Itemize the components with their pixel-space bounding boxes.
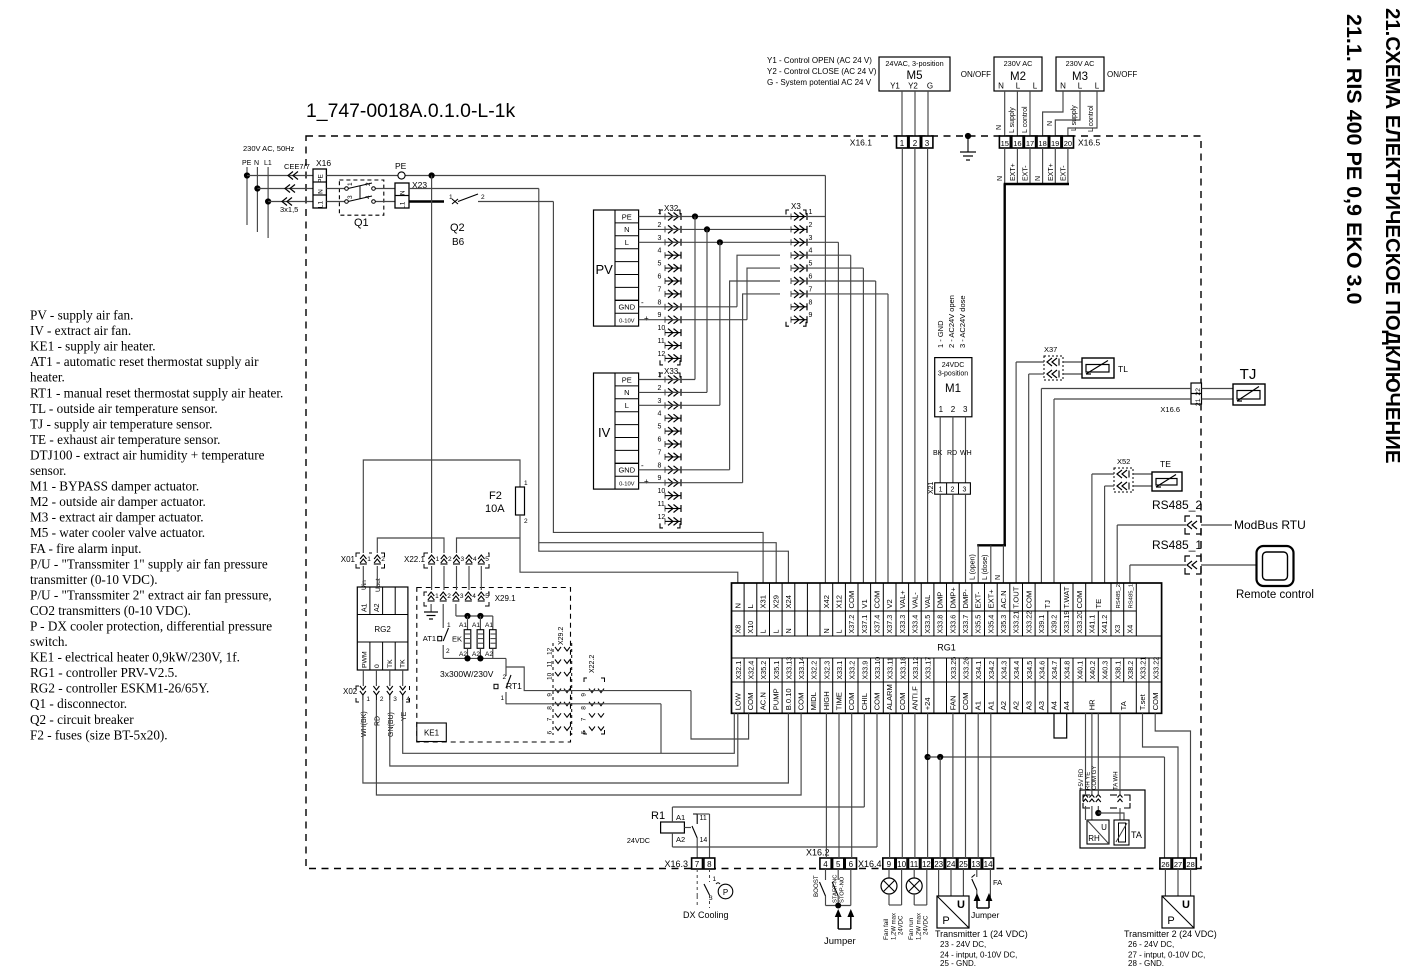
svg-text:RS485_1: RS485_1 xyxy=(1129,584,1135,609)
wire input N vertical xyxy=(254,167,260,232)
connector X29.2 xyxy=(547,627,572,735)
svg-text:X33.26: X33.26 xyxy=(962,657,971,680)
svg-text:A1: A1 xyxy=(676,813,685,822)
svg-text:X24: X24 xyxy=(784,595,793,609)
svg-text:9: 9 xyxy=(547,693,554,697)
svg-text:X8: X8 xyxy=(733,625,742,634)
svg-text:V2: V2 xyxy=(885,599,894,608)
wire L1 to X31 xyxy=(553,202,763,584)
svg-text:X41.1: X41.1 xyxy=(1088,615,1097,634)
svg-text:2: 2 xyxy=(658,222,662,229)
RG1 lower terminal texts xyxy=(733,657,1160,711)
svg-text:X35.5: X35.5 xyxy=(974,615,983,634)
svg-text:L (open): L (open) xyxy=(970,554,977,580)
svg-text:A2: A2 xyxy=(1012,701,1021,710)
svg-text:X22.1: X22.1 xyxy=(404,555,425,564)
svg-text:X34.4: X34.4 xyxy=(1012,661,1021,680)
svg-text:R1: R1 xyxy=(651,810,665,822)
svg-text:X33.8: X33.8 xyxy=(936,615,945,634)
svg-text:9: 9 xyxy=(581,693,588,697)
fuse F2 xyxy=(516,480,529,525)
svg-text:0-10V: 0-10V xyxy=(619,319,635,325)
svg-text:G: G xyxy=(927,82,933,91)
svg-text:16: 16 xyxy=(1013,139,1021,148)
svg-text:X33.17: X33.17 xyxy=(924,657,933,680)
svg-text:N: N xyxy=(318,189,325,194)
svg-text:X33.13: X33.13 xyxy=(784,657,793,680)
svg-text:A1: A1 xyxy=(459,622,467,629)
svg-text:X33.12: X33.12 xyxy=(911,657,920,680)
svg-text:23 - 24V DC,: 23 - 24V DC, xyxy=(940,940,986,949)
wire X16.1-3 to VAL xyxy=(927,148,929,583)
svg-text:27: 27 xyxy=(1174,860,1182,869)
svg-text:transmitter (0-10 VDC).: transmitter (0-10 VDC). xyxy=(30,572,158,587)
svg-text:X52: X52 xyxy=(1117,457,1130,466)
heater KE1 dashed enclosure xyxy=(417,588,571,743)
svg-text:A3: A3 xyxy=(1024,701,1033,710)
svg-text:COM: COM xyxy=(847,591,856,609)
svg-text:FA - fire alarm input.: FA - fire alarm input. xyxy=(30,541,141,556)
svg-text:X33.2: X33.2 xyxy=(848,661,857,680)
wire X16.1-1 to VAL+ xyxy=(901,148,903,583)
svg-text:N: N xyxy=(996,125,1003,130)
svg-text:Q1 - disconnector.: Q1 - disconnector. xyxy=(30,696,127,711)
svg-text:U: U xyxy=(1101,823,1107,832)
svg-text:X33.1: X33.1 xyxy=(835,661,844,680)
svg-text:X33.21: X33.21 xyxy=(1139,657,1148,680)
label 230V AC, 50Hz xyxy=(243,144,295,153)
wire F2 to X8 xyxy=(520,515,738,583)
wire X16.1-2 to VAL- xyxy=(914,148,916,583)
start stop switch xyxy=(826,869,851,909)
svg-text:LOW: LOW xyxy=(733,692,742,710)
lamp Fan fail xyxy=(881,869,902,905)
svg-text:14: 14 xyxy=(700,837,708,844)
svg-text:RG1: RG1 xyxy=(937,643,956,653)
svg-text:14: 14 xyxy=(984,860,993,869)
wire M2 L control xyxy=(1022,91,1030,136)
wire input PE vertical xyxy=(244,167,250,225)
unit enclosure dashed border xyxy=(306,136,1201,869)
wire M5 Y1 xyxy=(901,91,903,136)
wire bus branch to X16.4-23 xyxy=(939,757,941,858)
svg-text:4: 4 xyxy=(365,195,372,199)
svg-text:1: 1 xyxy=(435,593,439,600)
label KE1 box xyxy=(417,723,447,742)
connector X22.2 xyxy=(581,655,605,735)
svg-text:X32.1: X32.1 xyxy=(734,661,743,680)
svg-text:RT1 - manual reset thermostat: RT1 - manual reset thermostat supply air… xyxy=(30,385,283,400)
svg-text:X37.1: X37.1 xyxy=(860,615,869,634)
connector RS485_2 xyxy=(1185,516,1201,534)
svg-text:0: 0 xyxy=(374,664,381,668)
svg-text:X35.2: X35.2 xyxy=(759,661,768,680)
svg-text:RS485_2: RS485_2 xyxy=(1116,584,1122,609)
svg-text:3: 3 xyxy=(393,696,397,703)
heater element EK2 xyxy=(472,616,484,658)
wire COM to R1 A2 xyxy=(672,713,877,847)
svg-text:10: 10 xyxy=(658,488,666,495)
svg-text:24VDC: 24VDC xyxy=(924,915,930,935)
svg-text:COM: COM xyxy=(873,693,882,711)
sensor TJ xyxy=(1202,366,1266,405)
legend text xyxy=(30,308,283,743)
RG1 upper terminal texts xyxy=(733,584,1134,634)
svg-text:M2 - outside air damper actuat: M2 - outside air damper actuator. xyxy=(30,494,206,509)
svg-text:VAL: VAL xyxy=(923,595,932,609)
thermostat AT1 xyxy=(423,604,451,658)
wire M3 L supply xyxy=(1055,91,1080,136)
svg-text:2: 2 xyxy=(951,405,956,414)
heater bottom bus xyxy=(443,655,506,661)
label RG1 xyxy=(937,643,956,653)
svg-text:GND: GND xyxy=(618,466,635,475)
wire to EXT- X35.5 xyxy=(970,545,979,583)
svg-text:Uin: Uin xyxy=(361,580,368,590)
svg-text:X37: X37 xyxy=(1044,345,1057,354)
svg-text:3: 3 xyxy=(460,593,464,600)
svg-text:Q2 - circuit breaker: Q2 - circuit breaker xyxy=(30,712,134,727)
svg-text:X35.1: X35.1 xyxy=(772,661,781,680)
bold neutral bus below X16.5 xyxy=(1004,183,1069,185)
svg-text:VAL-: VAL- xyxy=(910,592,919,609)
terminal X16.4 xyxy=(858,858,994,869)
svg-text:2: 2 xyxy=(448,556,452,563)
svg-text:PV: PV xyxy=(596,262,614,277)
wire PV 0-10V to X3.5 xyxy=(639,268,806,320)
svg-text:1: 1 xyxy=(436,556,440,563)
svg-text:AT1 - automatic reset thermost: AT1 - automatic reset thermostat supply … xyxy=(30,354,259,369)
svg-text:3: 3 xyxy=(658,235,662,242)
svg-text:10: 10 xyxy=(547,672,554,680)
svg-text:21.СХЕМА ЕЛЕКТРИЧЕСКОЕ ПОДКЛЮЧ: 21.СХЕМА ЕЛЕКТРИЧЕСКОЕ ПОДКЛЮЧЕНИЕ xyxy=(1381,8,1403,463)
wire PV GND to X3.4 xyxy=(639,255,806,307)
svg-text:Jumper: Jumper xyxy=(824,936,856,947)
label Jumper FA xyxy=(971,910,1000,920)
svg-text:N: N xyxy=(784,628,793,633)
svg-text:L1: L1 xyxy=(318,201,325,209)
svg-text:ANTI.F: ANTI.F xyxy=(910,686,919,710)
svg-text:COM: COM xyxy=(1151,693,1160,711)
wire L1 feed xyxy=(268,198,313,206)
disconnector Q1 dashed box xyxy=(339,180,383,215)
svg-text:19: 19 xyxy=(1051,139,1059,148)
svg-text:5: 5 xyxy=(836,860,841,869)
heater top bus xyxy=(456,604,493,619)
svg-text:ALARM: ALARM xyxy=(885,684,894,710)
svg-text:7: 7 xyxy=(695,860,700,869)
svg-text:L1: L1 xyxy=(400,201,407,209)
svg-text:COM: COM xyxy=(1024,591,1033,609)
Q1 contacts xyxy=(326,182,395,203)
svg-text:L: L xyxy=(625,401,629,410)
label ON/OFF right xyxy=(1107,70,1137,79)
wire FAN to X16.4-24 xyxy=(952,713,954,858)
svg-text:11: 11 xyxy=(658,338,665,345)
svg-text:X16.4: X16.4 xyxy=(858,859,882,869)
wire +24 to X16.4-12 xyxy=(925,713,931,858)
svg-text:25 - GND,: 25 - GND, xyxy=(940,959,976,966)
svg-text:11: 11 xyxy=(700,815,707,822)
wire Tset to X16.3-27 xyxy=(1143,713,1179,858)
svg-text:X34.1: X34.1 xyxy=(974,661,983,680)
fan connector IV block xyxy=(594,373,639,489)
svg-text:heater.: heater. xyxy=(30,370,65,385)
svg-text:28 - GND,: 28 - GND, xyxy=(1128,959,1164,966)
svg-text:X40.3: X40.3 xyxy=(1101,661,1110,680)
svg-text:10: 10 xyxy=(897,860,906,869)
svg-text:BOOST: BOOST xyxy=(813,875,820,897)
wire A4 loop xyxy=(1054,713,1067,738)
svg-text:26 - 24V DC,: 26 - 24V DC, xyxy=(1128,940,1174,949)
svg-text:5: 5 xyxy=(658,424,662,431)
svg-text:Uout: Uout xyxy=(375,578,382,592)
svg-text:RH YE: RH YE xyxy=(1086,772,1092,790)
HR sensor element xyxy=(1086,806,1125,844)
svg-text:Q2: Q2 xyxy=(450,222,465,234)
humidity sensor HR box xyxy=(1080,790,1145,848)
svg-text:T.OUT: T.OUT xyxy=(1012,586,1021,608)
wire N from X23 xyxy=(409,188,539,190)
svg-text:COM: COM xyxy=(898,693,907,711)
wire TJ row1 xyxy=(1041,389,1191,584)
wire input L1 vertical xyxy=(265,167,271,238)
labels Uin Uout xyxy=(361,578,382,592)
svg-text:2: 2 xyxy=(951,487,955,494)
svg-text:N: N xyxy=(997,176,1004,181)
svg-text:EXT-: EXT- xyxy=(1023,165,1030,181)
svg-text:X33.11: X33.11 xyxy=(886,657,895,679)
label X23 xyxy=(412,180,427,190)
svg-text:MIDL: MIDL xyxy=(809,692,818,710)
wire X21-2 to DMP+ xyxy=(952,494,954,583)
label 3x1,5 xyxy=(280,205,298,214)
svg-text:26: 26 xyxy=(1161,860,1169,869)
wire M5 G xyxy=(927,91,929,136)
svg-text:P: P xyxy=(942,915,949,927)
svg-text:G - System potential AC 24 V: G - System potential AC 24 V xyxy=(767,78,872,87)
damper actuator M3 xyxy=(1056,57,1104,91)
svg-text:RD: RD xyxy=(947,450,957,457)
svg-text:7: 7 xyxy=(809,286,813,293)
wire CHIL to R1 A1 xyxy=(672,713,864,822)
svg-text:X33.14: X33.14 xyxy=(797,657,806,680)
svg-text:N: N xyxy=(822,628,831,633)
annotation Y1 Y2 G xyxy=(767,56,877,87)
svg-text:4: 4 xyxy=(658,411,662,418)
svg-text:KE1 - supply air heater.: KE1 - supply air heater. xyxy=(30,339,156,354)
svg-text:GN(BU): GN(BU) xyxy=(388,712,395,737)
svg-text:3: 3 xyxy=(925,139,930,148)
TA sensor element xyxy=(1114,808,1142,845)
svg-text:X16: X16 xyxy=(316,158,331,168)
svg-text:Transmitter 1 (24 VDC): Transmitter 1 (24 VDC) xyxy=(935,929,1028,939)
wire RG2 to X02 xyxy=(363,670,402,686)
svg-text:Transmitter 2 (24 VDC): Transmitter 2 (24 VDC) xyxy=(1124,929,1217,939)
svg-text:2 - AC24V open: 2 - AC24V open xyxy=(947,295,956,348)
svg-text:X34.8: X34.8 xyxy=(1063,661,1072,680)
svg-text:ON/OFF: ON/OFF xyxy=(961,70,991,79)
svg-text:X33: X33 xyxy=(664,367,679,376)
svg-text:X3: X3 xyxy=(1113,625,1122,634)
wire COM to X16.4-25 xyxy=(965,713,967,858)
svg-text:X29.1: X29.1 xyxy=(495,594,516,603)
svg-text:X01: X01 xyxy=(341,555,356,564)
RG1 lower cell borders xyxy=(744,658,1149,713)
wire N branch to X24 xyxy=(539,543,789,583)
svg-text:P: P xyxy=(723,888,728,897)
svg-text:IV - extract air fan.: IV - extract air fan. xyxy=(30,323,131,338)
svg-text:17: 17 xyxy=(1026,139,1034,148)
boost switch xyxy=(813,869,826,906)
controller RG1 block outline xyxy=(732,583,1162,713)
connector X01 xyxy=(341,553,386,568)
svg-text:3: 3 xyxy=(658,398,662,405)
labels Fan run xyxy=(908,913,930,940)
svg-text:RH: RH xyxy=(1088,834,1100,843)
svg-text:4: 4 xyxy=(823,860,828,869)
svg-text:L control: L control xyxy=(1088,105,1095,132)
wire X01 to RG2 xyxy=(363,566,377,587)
svg-text:8: 8 xyxy=(707,860,712,869)
svg-text:4: 4 xyxy=(658,248,662,255)
svg-text:F2 - fuses (size BT-5x20).: F2 - fuses (size BT-5x20). xyxy=(30,727,168,742)
svg-text:20: 20 xyxy=(1064,139,1072,148)
svg-text:21: 21 xyxy=(1195,398,1202,406)
svg-text:M1 - BYPASS damper actuator.: M1 - BYPASS damper actuator. xyxy=(30,479,199,494)
bold neutral elbow xyxy=(977,544,1006,546)
wire COM to X16.4-10 xyxy=(901,713,903,858)
svg-text:TJ - supply air temperature se: TJ - supply air temperature sensor. xyxy=(30,416,212,431)
wire X3.1 riser to RG1 X42 xyxy=(824,176,826,584)
svg-text:2: 2 xyxy=(913,139,918,148)
svg-text:N: N xyxy=(1060,82,1066,91)
svg-text:A1: A1 xyxy=(974,701,983,710)
wire X37 row1 to T.OUT xyxy=(1016,362,1044,583)
svg-text:L: L xyxy=(1016,82,1021,91)
svg-text:F2: F2 xyxy=(489,490,502,502)
title 1_747-0018A.0.1.0-L-1k xyxy=(306,100,515,122)
svg-text:X16.1: X16.1 xyxy=(850,138,872,148)
svg-text:X33.25: X33.25 xyxy=(949,657,958,680)
wire M5 Y2 xyxy=(914,91,916,136)
svg-text:230V AC: 230V AC xyxy=(1004,59,1033,68)
svg-text:AC.N: AC.N xyxy=(999,590,1008,608)
svg-text:DTJ100 - extract air humidity: DTJ100 - extract air humidity + temperat… xyxy=(30,448,265,463)
connector X37 xyxy=(1044,345,1063,380)
svg-text:X40.2: X40.2 xyxy=(1088,661,1097,680)
svg-text:X34.2: X34.2 xyxy=(987,661,996,680)
svg-text:PE: PE xyxy=(318,174,325,183)
svg-text:WH: WH xyxy=(960,450,972,457)
svg-text:PE: PE xyxy=(395,161,407,171)
svg-text:ON/OFF: ON/OFF xyxy=(1107,70,1137,79)
svg-text:EXT+: EXT+ xyxy=(986,589,995,609)
wire +24 distribution bus xyxy=(928,754,1165,760)
transmitter 1 box xyxy=(937,869,969,928)
sensor TL xyxy=(1063,358,1128,378)
label Transmitter 1 xyxy=(935,929,1028,968)
label Jumper xyxy=(824,936,856,947)
svg-text:TA: TA xyxy=(1119,700,1128,710)
svg-text:24VAC, 3-position: 24VAC, 3-position xyxy=(885,59,943,68)
label RS485_1 xyxy=(1152,538,1202,552)
svg-text:2: 2 xyxy=(381,556,385,563)
svg-text:24VDC: 24VDC xyxy=(899,915,905,935)
wire GN(BU) to LOW xyxy=(390,700,738,766)
svg-text:230V AC: 230V AC xyxy=(1066,59,1095,68)
label Q2 B6 xyxy=(450,222,465,248)
svg-text:X38.2: X38.2 xyxy=(1126,661,1135,680)
svg-text:L: L xyxy=(835,630,844,634)
svg-text:U: U xyxy=(1182,899,1190,911)
svg-text:24VDC: 24VDC xyxy=(627,836,650,845)
svg-text:2: 2 xyxy=(380,696,384,703)
svg-text:COM: COM xyxy=(746,693,755,711)
svg-text:X40.1: X40.1 xyxy=(1075,661,1084,680)
svg-text:N: N xyxy=(624,388,629,397)
svg-text:X39.2: X39.2 xyxy=(1050,615,1059,634)
svg-text:TL: TL xyxy=(1118,364,1128,374)
svg-text:1: 1 xyxy=(501,695,505,702)
label CEE7/7 xyxy=(284,162,310,171)
wire YE to row8 net xyxy=(403,700,735,753)
annotation M1 pin functions xyxy=(936,295,967,348)
svg-text:COM: COM xyxy=(1075,591,1084,609)
svg-text:B.0.10: B.0.10 xyxy=(784,688,793,710)
fan connector PV block xyxy=(594,210,639,326)
svg-text:N: N xyxy=(254,160,259,167)
connector X32 xyxy=(658,204,682,365)
svg-text:22: 22 xyxy=(1195,388,1202,396)
svg-text:X21: X21 xyxy=(928,481,935,494)
connector X52 xyxy=(1114,457,1133,492)
wire WH(BK) to B.0.10 xyxy=(363,700,789,783)
svg-text:L: L xyxy=(1033,82,1038,91)
svg-text:X39.1: X39.1 xyxy=(1037,615,1046,634)
svg-text:1: 1 xyxy=(939,405,944,414)
wire N to X29 xyxy=(539,189,776,584)
svg-text:X33.18: X33.18 xyxy=(898,657,907,680)
svg-text:X12: X12 xyxy=(835,595,844,609)
svg-text:2: 2 xyxy=(658,385,662,392)
svg-text:10: 10 xyxy=(658,325,666,332)
svg-text:B6: B6 xyxy=(452,237,465,248)
wire L drop X32 to X33 xyxy=(639,242,720,405)
svg-text:CHIL: CHIL xyxy=(860,693,869,710)
svg-text:PUMP: PUMP xyxy=(771,688,780,710)
svg-text:X38.1: X38.1 xyxy=(1113,661,1122,680)
wire X52 row1 to TE+ xyxy=(1092,474,1114,583)
svg-text:X35.4: X35.4 xyxy=(986,615,995,634)
wire remote control xyxy=(1201,564,1257,566)
svg-text:YE: YE xyxy=(401,711,408,721)
svg-text:N: N xyxy=(1035,176,1042,181)
svg-text:6: 6 xyxy=(658,437,662,444)
svg-text:IV: IV xyxy=(598,425,611,440)
heater element EK3 xyxy=(485,616,496,658)
svg-text:KE1: KE1 xyxy=(424,729,440,738)
svg-text:1: 1 xyxy=(524,480,528,487)
labels Fan fail xyxy=(883,913,905,940)
svg-text:TA WH: TA WH xyxy=(1114,771,1120,790)
svg-text:X37.4: X37.4 xyxy=(873,615,882,634)
label Q1 xyxy=(354,217,369,229)
svg-text:X32.3: X32.3 xyxy=(822,661,831,680)
label X16 xyxy=(316,158,331,168)
svg-text:RG2 - controller ESKM1-26/65Y.: RG2 - controller ESKM1-26/65Y. xyxy=(30,681,209,696)
svg-text:A1: A1 xyxy=(472,622,480,629)
